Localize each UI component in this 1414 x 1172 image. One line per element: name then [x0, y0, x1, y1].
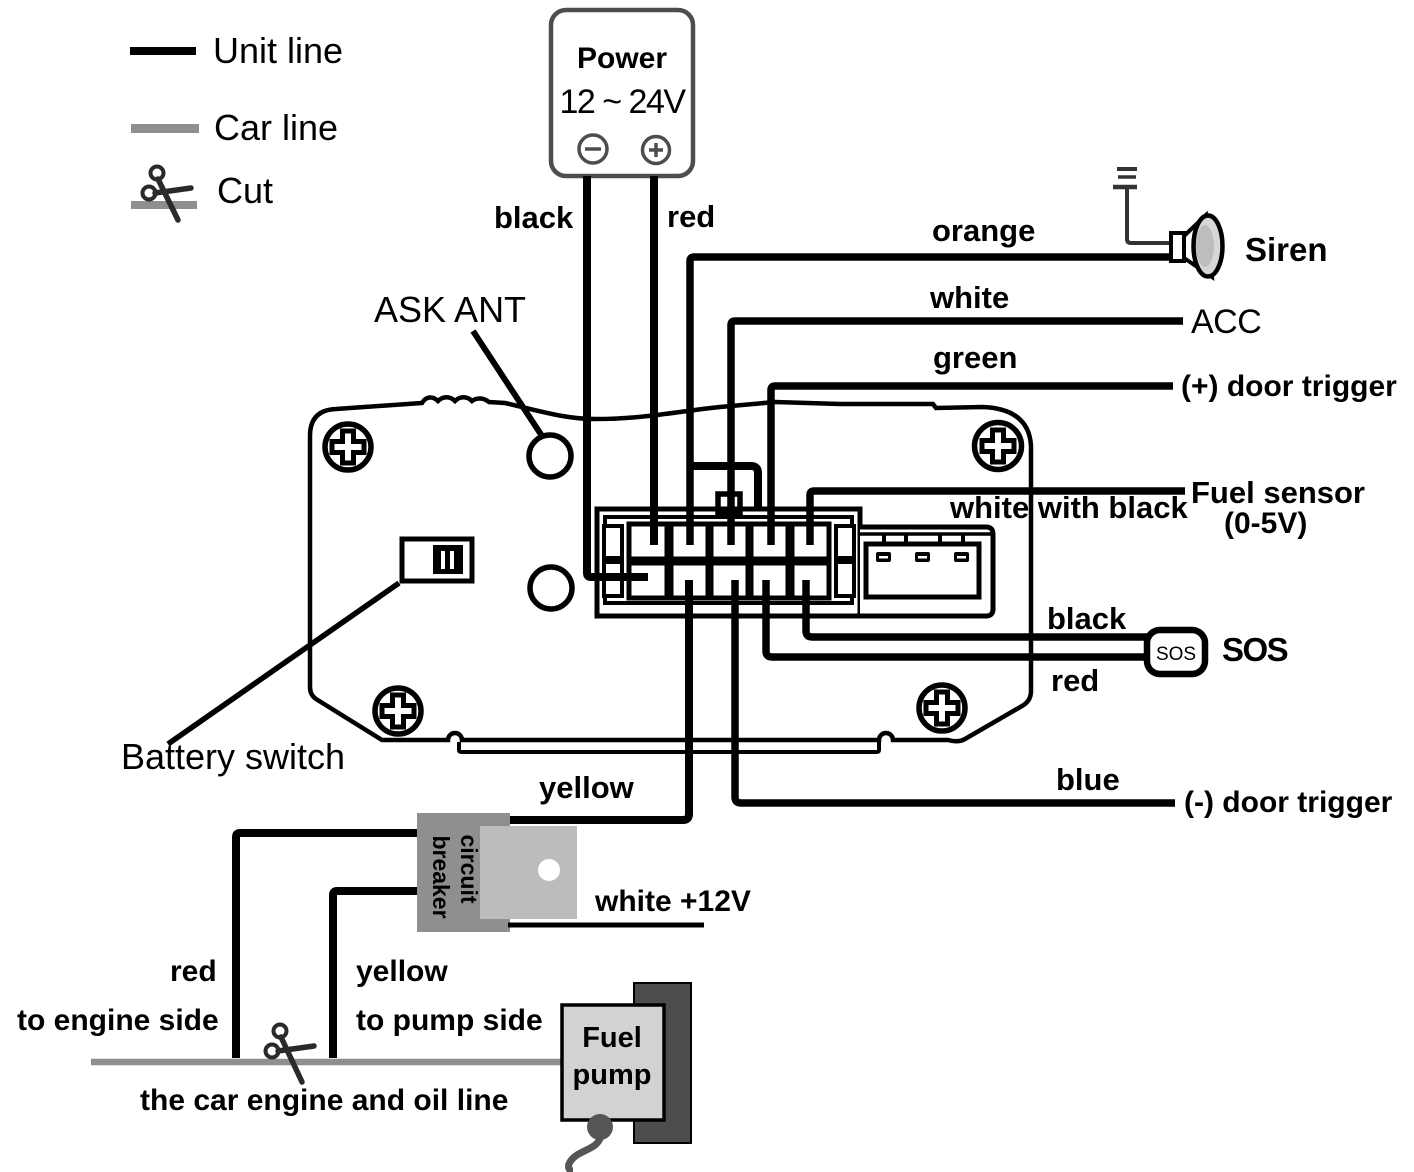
wire: green from pin 4 to door trigger [771, 386, 1173, 545]
svg-text:Siren: Siren [1245, 231, 1328, 268]
svg-text:red: red [667, 199, 715, 234]
wire: red from power plus to pin 1 [650, 176, 658, 545]
svg-text:Fuel sensor: Fuel sensor [1191, 475, 1365, 510]
svg-text:yellow: yellow [356, 955, 448, 988]
svg-text:red: red [170, 955, 217, 988]
svg-text:white: white [929, 280, 1009, 315]
sim holder block [860, 527, 993, 616]
connector left end cell upper [604, 526, 622, 558]
connector right end cell lower [836, 562, 854, 596]
svg-text:12 ~ 24V: 12 ~ 24V [559, 83, 686, 121]
svg-text:black: black [494, 200, 574, 235]
pin 4 [751, 524, 788, 559]
sim holder inner tray [866, 544, 979, 597]
svg-text:(+) door trigger: (+) door trigger [1181, 370, 1397, 403]
siren speaker horn [1184, 215, 1212, 277]
wire: black from pin 10 to SOS [806, 580, 1148, 637]
legend: unit line sample [130, 47, 196, 55]
svg-text:pump: pump [573, 1059, 652, 1091]
pin 8 [711, 563, 748, 598]
wire: orange from pin 2 to siren [690, 257, 1174, 545]
ASK ANT pointer line [473, 331, 542, 436]
svg-text:orange: orange [932, 213, 1035, 248]
siren driver box [1171, 233, 1184, 261]
screw top-right [975, 423, 1022, 470]
sim contact pad 2 [915, 552, 930, 562]
ASK ANT antenna hole [529, 435, 571, 477]
pin 9 [751, 563, 788, 598]
svg-text:ACC: ACC [1191, 303, 1261, 341]
fuel pump pigtail hose [569, 1136, 601, 1171]
svg-text:SOS: SOS [1222, 631, 1288, 668]
connector left end cell lower [604, 562, 622, 596]
circuit breaker mount hole [538, 859, 560, 881]
svg-text:to pump side: to pump side [356, 1004, 543, 1037]
svg-text:Car line: Car line [214, 107, 338, 148]
wire: breaker to engine side [236, 833, 417, 1058]
fuel pump body [562, 1005, 664, 1120]
power supply box [551, 10, 693, 176]
10-pin connector inner shell [605, 517, 852, 603]
wire: white from pin 3 to ACC [731, 321, 1183, 545]
pin 10 [792, 563, 829, 598]
10-pin connector outer shell [597, 509, 860, 616]
svg-text:the car engine and oil line: the car engine and oil line [140, 1084, 508, 1117]
power plus terminal [643, 137, 670, 164]
pin 2 [671, 524, 708, 559]
power minus terminal [579, 135, 607, 163]
legend: car line sample [131, 124, 199, 133]
screw bottom-left [375, 688, 421, 734]
fuel pump outlet [587, 1114, 613, 1140]
svg-text:Battery switch: Battery switch [121, 736, 345, 777]
sim contact pad 1 [876, 552, 891, 562]
svg-text:ASK ANT: ASK ANT [374, 289, 526, 330]
wire: yellow from pin 7 to circuit breaker [508, 580, 689, 820]
svg-text:green: green [933, 340, 1017, 375]
unit bottom lip seam [459, 742, 879, 752]
svg-text:to engine side: to engine side [17, 1004, 219, 1037]
svg-text:circuit: circuit [456, 834, 482, 903]
svg-text:blue: blue [1056, 762, 1120, 797]
pin 3 [711, 524, 748, 559]
svg-text:(0-5V): (0-5V) [1224, 507, 1307, 540]
car fuel line (gray) [91, 1059, 562, 1066]
connector harness jog wire [692, 466, 758, 509]
pin 5 [792, 524, 829, 559]
battery switch [402, 539, 472, 581]
screw top-left [325, 424, 371, 470]
svg-text:Fuel: Fuel [582, 1022, 642, 1054]
wire: white +12V output [508, 923, 704, 928]
svg-text:red: red [1051, 663, 1099, 698]
wire: white-with-black from pin 5 to fuel sensor [810, 491, 1185, 545]
pin 6 [629, 563, 667, 598]
svg-text:white with black: white with black [949, 490, 1188, 525]
connector latch tab [718, 494, 740, 514]
SOS button [1147, 630, 1205, 674]
screw bottom-right [919, 685, 965, 731]
unit body outline [310, 397, 1031, 741]
wire: blue from pin 8 to door trigger [735, 580, 1175, 803]
pin 7 [671, 563, 708, 598]
svg-text:(-) door trigger: (-) door trigger [1184, 786, 1393, 819]
svg-text:white +12V: white +12V [594, 885, 751, 918]
svg-text:SOS: SOS [1156, 644, 1196, 665]
siren ground symbol [1113, 169, 1172, 243]
wire: red from pin 9 to SOS [766, 580, 1148, 657]
svg-text:Cut: Cut [217, 170, 273, 211]
legend: cut gray line sample [131, 201, 197, 209]
circuit breaker body [417, 813, 510, 932]
svg-text:black: black [1047, 601, 1127, 636]
fuel pump bracket (dark) [634, 983, 691, 1143]
connector right end cell upper [836, 526, 854, 558]
battery switch pointer line [168, 583, 399, 744]
circuit breaker contact plate [480, 826, 577, 919]
svg-text:yellow: yellow [539, 770, 635, 805]
sim holder comb [860, 532, 991, 536]
svg-text:breaker: breaker [428, 835, 454, 918]
pin 1 [629, 524, 667, 559]
cut scissors on fuel line [266, 1025, 315, 1083]
svg-text:Power: Power [577, 42, 667, 75]
wire: black from power minus to pin 6 [587, 176, 648, 577]
svg-text:Unit line: Unit line [213, 30, 343, 71]
second antenna hole [530, 567, 572, 609]
sim contact pad 3 [954, 552, 969, 562]
wire: breaker to pump side [333, 891, 417, 1058]
legend: cut scissors icon [143, 167, 192, 221]
